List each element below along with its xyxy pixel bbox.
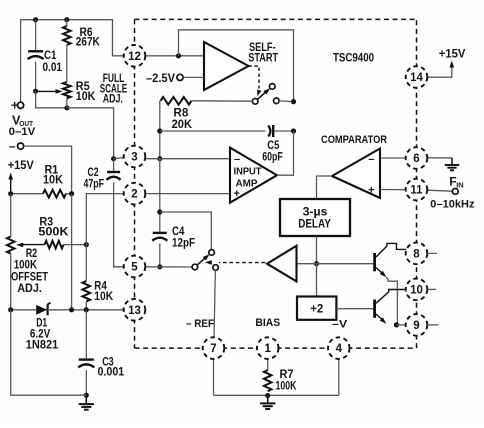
transistor Q2 xyxy=(373,290,406,324)
svg-text:5: 5 xyxy=(131,262,138,274)
wire pin 14 to +15V xyxy=(427,61,454,78)
pin 4 xyxy=(328,337,350,359)
wire C3 top lead xyxy=(85,310,87,360)
svg-text:R7: R7 xyxy=(280,369,294,381)
resistor R6 xyxy=(63,26,100,49)
label Vout xyxy=(9,113,36,138)
pin 5 xyxy=(124,256,146,278)
resistor R4 xyxy=(83,281,114,303)
svg-text:–2.5V: –2.5V xyxy=(146,73,175,85)
svg-text:2: 2 xyxy=(131,189,137,201)
wire C5 left lead xyxy=(160,130,265,132)
IC boundary right dashed wire xyxy=(416,19,418,348)
wire R6 top lead xyxy=(66,20,68,26)
label +15V right xyxy=(439,49,466,61)
node C5 tap xyxy=(157,128,162,133)
wire C1 top lead xyxy=(35,20,37,52)
svg-text:– REF: – REF xyxy=(186,318,214,330)
pin 11 xyxy=(406,179,428,201)
wire R3 node down to R4 xyxy=(85,245,87,281)
label REF xyxy=(186,318,214,330)
wire S2 top branch xyxy=(160,212,212,250)
svg-text:267K: 267K xyxy=(76,37,101,49)
svg-text:C4: C4 xyxy=(172,226,185,238)
ground signal xyxy=(445,158,459,171)
svg-text:8: 8 xyxy=(413,249,420,261)
wire comparator minus to pin 6 xyxy=(380,157,406,159)
svg-text:+15V: +15V xyxy=(439,49,466,61)
svg-text:DELAY: DELAY xyxy=(298,217,331,231)
svg-text:11: 11 xyxy=(410,185,423,197)
svg-text:R8: R8 xyxy=(173,108,189,120)
capacitor C2 xyxy=(84,167,121,190)
wire D1 row right xyxy=(48,309,124,311)
label FULL SCALE ADJ xyxy=(100,73,128,105)
svg-text:100K: 100K xyxy=(14,260,38,272)
wire pin 5 to S2 xyxy=(146,266,192,268)
wire S1 to output node xyxy=(279,100,293,103)
node C5 right xyxy=(291,128,296,133)
svg-text:10K: 10K xyxy=(76,91,96,103)
svg-text:C2: C2 xyxy=(88,167,99,179)
wire buffer dashed control xyxy=(205,260,265,265)
potentiometer R5 xyxy=(63,81,96,103)
node D1 cathode xyxy=(69,307,74,312)
svg-text:INPUT: INPUT xyxy=(234,166,263,178)
wire R4 bottom lead xyxy=(85,302,87,310)
svg-text:60pF: 60pF xyxy=(262,151,283,163)
pin 9 xyxy=(406,314,428,336)
label TSC9400 xyxy=(333,52,374,64)
wire input amp output xyxy=(277,131,294,175)
wire S2 common to pin 7 xyxy=(214,270,215,337)
wire main node to Q1 base xyxy=(297,263,374,265)
wire pin 7 down xyxy=(213,359,215,395)
wire bottom rail xyxy=(214,394,339,396)
wire R1 right lead xyxy=(66,193,72,195)
pin 13 xyxy=(124,299,146,321)
pin 6 xyxy=(406,147,428,169)
capacitor C5 xyxy=(262,125,283,163)
svg-text:500K: 500K xyxy=(38,227,69,239)
wire R1 left lead xyxy=(11,193,43,195)
wire C2 top lead xyxy=(113,159,115,172)
IC boundary bottom dashed wire xyxy=(135,347,417,349)
wire C3 bottom lead xyxy=(85,370,87,395)
pin 10 xyxy=(406,279,428,301)
node C1 bottom / R5 wiper xyxy=(33,89,38,94)
wire R8 to S1 xyxy=(192,100,253,102)
wire div2 to Q2 base xyxy=(336,308,373,310)
IC boundary top dashed wire xyxy=(135,18,417,20)
svg-text:12: 12 xyxy=(128,51,141,63)
node driver xyxy=(314,261,319,266)
label +15V left xyxy=(8,160,34,172)
svg-text:–: – xyxy=(234,153,240,165)
resistor R1 xyxy=(43,164,66,197)
label COMPARATOR xyxy=(321,134,387,146)
wire pin 8 stub xyxy=(427,252,437,254)
wire C1 bottom lead xyxy=(35,62,37,91)
node D1 row left xyxy=(8,307,13,312)
terminal Vout minus xyxy=(9,139,24,153)
terminal Vout plus xyxy=(11,98,24,113)
wire pin 4 down xyxy=(338,359,340,395)
wire pin 2 left to R3 node xyxy=(86,194,124,245)
wire delay to main node xyxy=(316,236,318,264)
wire R6 to R5 xyxy=(66,45,68,82)
wire input node down to C4 xyxy=(159,159,161,233)
wire R2 bottom to D1 row xyxy=(10,254,12,310)
switch S2 xyxy=(192,250,218,271)
svg-text:C5: C5 xyxy=(267,140,280,152)
wire emitter node to pin 9 xyxy=(397,324,406,326)
svg-text:10K: 10K xyxy=(94,291,114,303)
svg-text:–V: –V xyxy=(332,318,348,330)
wire pin 2 to input amp plus xyxy=(146,193,230,195)
wire +15V rail down to R2 xyxy=(10,194,12,237)
resistor R7 xyxy=(264,369,297,393)
svg-text:47pF: 47pF xyxy=(84,178,105,190)
op-amp self-start xyxy=(204,42,278,90)
wire D1 row left xyxy=(11,309,37,311)
node C4 bottom xyxy=(157,264,162,269)
node R3 right xyxy=(84,242,89,247)
block 3-us delay xyxy=(280,199,350,236)
wire R5 wiper arrow xyxy=(36,89,63,94)
node R6 top xyxy=(64,17,69,22)
terminal Fin xyxy=(452,189,458,195)
node R5 bottom xyxy=(64,105,69,110)
resistor R8 xyxy=(161,97,193,131)
svg-text:1N821: 1N821 xyxy=(26,337,59,351)
wire pin 12 to self-start xyxy=(145,55,204,57)
label -V xyxy=(332,318,348,330)
wire left ground rail xyxy=(11,310,87,395)
wire C1 bottom to R5 bottom xyxy=(36,91,67,108)
wire -2.5V to self-start xyxy=(183,76,204,78)
wire R5 bottom to C2 column xyxy=(67,108,114,159)
wire to pin 3 left xyxy=(114,158,124,159)
wire comparator output to delay xyxy=(317,176,333,199)
node switch S2 tap xyxy=(157,209,162,214)
wire R8 left column xyxy=(159,101,161,159)
svg-text:10: 10 xyxy=(410,285,423,297)
pin 3 xyxy=(124,146,146,168)
svg-text:0–10kHz: 0–10kHz xyxy=(430,199,475,211)
wire R2 wiper arrow xyxy=(16,243,44,248)
svg-text:R2: R2 xyxy=(26,248,38,260)
svg-text:100K: 100K xyxy=(276,381,298,393)
pin 12 xyxy=(124,45,146,67)
capacitor C1 xyxy=(28,50,63,74)
wire comparator plus to pin 11 xyxy=(380,189,406,191)
svg-text:10K: 10K xyxy=(43,174,64,186)
wire pin 6 to ground xyxy=(427,157,452,159)
label BIAS xyxy=(255,317,280,329)
node C3 ground xyxy=(84,393,89,398)
svg-text:0–1V: 0–1V xyxy=(9,126,36,138)
svg-text:6: 6 xyxy=(413,153,419,165)
wire C5 right lead xyxy=(273,130,293,132)
pin 1 xyxy=(257,337,279,359)
+15V supply arrow left xyxy=(8,173,13,194)
svg-text:+: + xyxy=(234,188,240,200)
svg-text:+2: +2 xyxy=(310,302,323,316)
wire pin 3 to input amp minus xyxy=(146,158,230,160)
op-amp comparator xyxy=(332,149,380,199)
svg-text:+: + xyxy=(368,184,374,196)
svg-text:13: 13 xyxy=(128,305,141,317)
IC boundary left dashed wire xyxy=(134,19,136,348)
ground R7 xyxy=(260,396,275,409)
node feedback tap xyxy=(176,53,181,58)
diode D1 xyxy=(26,303,59,352)
node pin 3 branch xyxy=(111,156,116,161)
svg-text:–: – xyxy=(9,139,16,153)
capacitor C3 xyxy=(78,357,124,379)
wire self-start output dashed control xyxy=(249,66,262,96)
node pin 9 junction xyxy=(394,322,399,327)
svg-text:4: 4 xyxy=(336,343,343,355)
op-amp input amp xyxy=(230,148,277,203)
wire self-start feedback loop xyxy=(179,30,294,102)
pin 2 xyxy=(124,183,146,205)
transistor Q1 xyxy=(373,243,406,277)
svg-text:14: 14 xyxy=(410,72,423,84)
capacitor C4 xyxy=(152,226,195,249)
node S1 output xyxy=(291,99,296,104)
wire C2 bottom to pin 5 xyxy=(114,182,124,266)
svg-text:1: 1 xyxy=(264,343,271,355)
node C1 top xyxy=(33,17,38,22)
svg-text:9: 9 xyxy=(413,320,419,332)
pin 14 xyxy=(406,66,428,88)
terminal -2.5V xyxy=(146,73,183,85)
wire Vout minus to R1 right xyxy=(24,146,72,194)
svg-text:0.01: 0.01 xyxy=(43,62,63,74)
wire main node to div2 xyxy=(316,264,318,297)
node R1 right xyxy=(69,191,74,196)
node input amp minus tap xyxy=(157,156,162,161)
svg-text:COMPARATOR: COMPARATOR xyxy=(321,134,387,146)
wire pin 11 to Fin xyxy=(427,190,452,191)
svg-text:BIAS: BIAS xyxy=(255,317,280,329)
svg-text:3: 3 xyxy=(131,152,137,164)
node R7 bottom xyxy=(265,393,270,398)
potentiometer R2 xyxy=(7,237,48,295)
resistor R3 xyxy=(38,216,69,248)
svg-text:0.001: 0.001 xyxy=(98,367,125,379)
op-amp buffer xyxy=(267,246,297,282)
wire R5 bottom lead xyxy=(66,98,68,108)
wire R3 right lead xyxy=(64,244,87,246)
svg-text:ADJ.: ADJ. xyxy=(17,283,42,295)
pin 7 xyxy=(203,337,225,359)
switch S1 xyxy=(252,84,279,105)
node R1 left xyxy=(8,191,13,196)
svg-text:IN: IN xyxy=(456,181,464,190)
wire pin 10 stub xyxy=(427,288,436,290)
svg-text:START: START xyxy=(248,52,278,64)
svg-text:–: – xyxy=(368,153,374,165)
block divide-by-2 xyxy=(297,297,336,320)
svg-text:ADJ.: ADJ. xyxy=(103,93,123,105)
node R4 bottom xyxy=(84,307,89,312)
svg-text:C1: C1 xyxy=(44,50,57,62)
ground left xyxy=(79,397,94,410)
wire Vout+ to pin 12 top rail xyxy=(21,20,124,103)
wire C4 bottom lead xyxy=(159,243,161,266)
wire R1 right down to D1 row xyxy=(71,194,73,310)
svg-text:20K: 20K xyxy=(172,119,193,131)
svg-text:12pF: 12pF xyxy=(172,237,195,249)
wire pin 1 to R7 xyxy=(267,359,269,370)
svg-text:OFFSET: OFFSET xyxy=(11,272,48,284)
svg-text:7: 7 xyxy=(210,343,216,355)
svg-text:+: + xyxy=(11,98,19,113)
svg-text:+15V: +15V xyxy=(8,160,34,172)
label Fin xyxy=(430,175,475,211)
svg-text:TSC9400: TSC9400 xyxy=(333,52,374,64)
pin 8 xyxy=(406,243,428,265)
wire Q1 emitter to pin 9 node xyxy=(386,277,397,325)
wire pin 9 stub xyxy=(427,324,438,326)
